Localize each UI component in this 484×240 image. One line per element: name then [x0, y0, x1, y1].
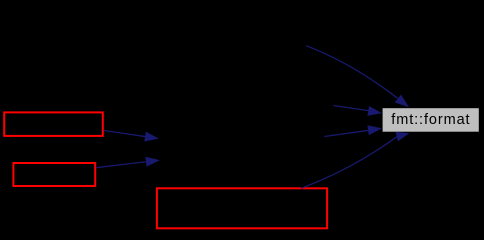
wire edge E6 caller-3 curving into fmt::format bottom [301, 132, 409, 188]
wire edge E2 caller-2 to hidden middle node [96, 157, 160, 168]
node caller-3 (red box bottom) [157, 188, 327, 228]
node caller-1 (red box top-left) [4, 112, 103, 135]
svg-text:fmt::format: fmt::format [391, 112, 470, 128]
wire edge E5 hidden top node curving into fmt::format top [306, 46, 409, 107]
wire edge E1 caller-1 to hidden middle node [104, 131, 159, 142]
wire edge E4 hidden node to fmt::format [333, 106, 382, 116]
node caller-2 (red box left) [13, 163, 95, 186]
node fmt::format (current node, grey) [383, 108, 479, 132]
wire edge E3 hidden middle node to fmt::format [324, 125, 382, 136]
